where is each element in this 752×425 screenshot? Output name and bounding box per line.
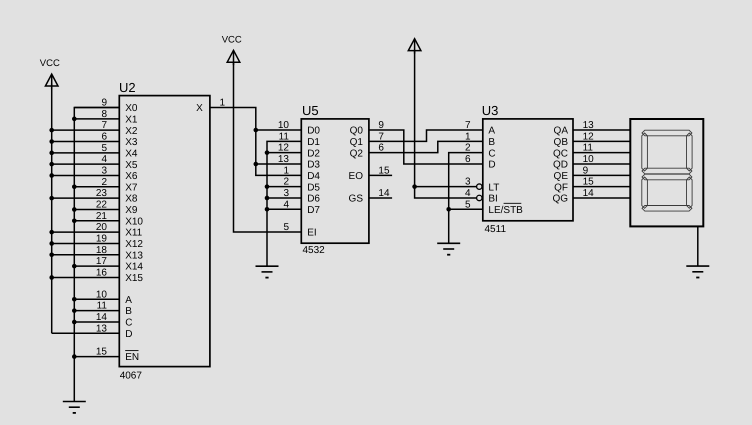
U2 pin 4 (X5) — [52, 154, 138, 171]
svg-text:X6: X6 — [125, 171, 138, 182]
svg-text:A: A — [125, 295, 132, 306]
svg-text:3: 3 — [283, 188, 289, 199]
junction VCC bus / X15 — [49, 275, 54, 280]
svg-text:3: 3 — [465, 177, 471, 188]
svg-text:X14: X14 — [125, 262, 143, 273]
junction C-gnd / LE-STB — [446, 207, 451, 212]
U2 pin 5 (X4) — [52, 143, 138, 160]
svg-text:Q0: Q0 — [350, 126, 364, 137]
svg-text:D0: D0 — [307, 126, 320, 137]
svg-text:X7: X7 — [125, 182, 138, 193]
svg-text:X4: X4 — [125, 148, 138, 159]
svg-text:C: C — [125, 318, 132, 329]
wire D6 stub — [267, 197, 301, 199]
svg-text:D6: D6 — [307, 194, 320, 205]
ground symbol (under U2) — [63, 402, 86, 413]
svg-text:13: 13 — [96, 323, 108, 334]
svg-text:11: 11 — [279, 131, 290, 142]
svg-text:X5: X5 — [125, 160, 138, 171]
svg-text:VCC: VCC — [40, 58, 60, 69]
U2 pin 9 (X0) — [74, 98, 138, 115]
wire D5 stub — [267, 186, 301, 188]
svg-text:D2: D2 — [307, 148, 320, 159]
display segment g (lower) — [642, 174, 692, 180]
U2 pin 14 (C) — [74, 312, 132, 329]
U3 pin 11 (QC) — [553, 143, 630, 160]
svg-text:22: 22 — [96, 199, 108, 210]
U5 pin 9 (Q0) — [350, 120, 385, 137]
wire net D1-D2-D5-D6-D7 to ground — [267, 141, 301, 266]
inversion bubble LT — [477, 184, 482, 189]
IC U3 4511 body — [483, 119, 573, 221]
svg-text:1: 1 — [283, 165, 289, 176]
wire Q2 to U3 B — [369, 141, 483, 152]
IC U5 4532 body — [301, 119, 369, 243]
IC U2 4067 body — [119, 96, 210, 367]
svg-text:X13: X13 — [125, 250, 143, 261]
7-segment display body — [630, 119, 703, 226]
svg-text:QF: QF — [554, 182, 568, 193]
junction ground bus / X14 — [72, 264, 77, 269]
junction ground bus / X1 — [72, 117, 77, 122]
svg-text:EI: EI — [307, 228, 316, 239]
svg-text:2: 2 — [465, 143, 471, 154]
svg-text:23: 23 — [96, 188, 108, 199]
wire ground bus (left, X0 corner down to ground) — [74, 108, 119, 402]
svg-text:X1: X1 — [125, 114, 138, 125]
U2 pin 22 (X9) — [74, 199, 138, 216]
svg-text:B: B — [125, 306, 132, 317]
svg-text:VCC: VCC — [222, 34, 242, 45]
U3 pin 1 (B) label — [465, 131, 495, 148]
junction D-bus / D6 — [265, 196, 270, 201]
svg-text:U5: U5 — [302, 103, 319, 118]
junction VCC bus / X8 — [49, 196, 54, 201]
U2 pin 19 (X12) — [52, 233, 144, 250]
U2 pin 7 (X2) — [52, 120, 138, 137]
svg-text:X9: X9 — [125, 205, 138, 216]
svg-text:QD: QD — [553, 160, 568, 171]
wire VCC to U3 BI — [415, 51, 477, 198]
wire D2 stub — [267, 152, 301, 154]
svg-text:4532: 4532 — [303, 245, 326, 256]
svg-text:X12: X12 — [125, 239, 143, 250]
junction ground bus / A — [72, 297, 77, 302]
power VCC symbol (left) — [40, 58, 60, 89]
svg-text:LE/STB: LE/STB — [488, 205, 523, 216]
U5 pin 13 (D3) label — [278, 154, 321, 171]
display segment c — [687, 177, 693, 208]
U3 pin 12 (QB) — [554, 131, 631, 148]
svg-text:14: 14 — [96, 312, 108, 323]
svg-text:X11: X11 — [125, 228, 142, 239]
U5 pin 1 (D4) label — [283, 165, 320, 182]
U2 pin 17 (X14) — [74, 256, 143, 273]
svg-text:4067: 4067 — [120, 370, 143, 381]
U2 pin 18 (X13) — [52, 245, 144, 262]
svg-text:D5: D5 — [307, 182, 320, 193]
junction X / D3 — [254, 162, 259, 167]
U3 pin 9 (QE) — [554, 165, 631, 182]
svg-text:10: 10 — [278, 120, 290, 131]
U5 pin 6 (Q2) — [350, 143, 385, 160]
U2 pin 11 (B) — [74, 301, 132, 318]
U2 pin 8 (X1) — [74, 109, 138, 126]
display segment d — [642, 206, 692, 212]
svg-text:U3: U3 — [482, 103, 499, 118]
svg-text:13: 13 — [278, 154, 290, 165]
svg-text:D7: D7 — [307, 205, 320, 216]
U5 pin 12 (D2) label — [278, 143, 321, 160]
svg-text:11: 11 — [97, 301, 108, 312]
junction X / D0 — [254, 128, 259, 133]
U5 pin 15 (EO) — [349, 165, 390, 182]
svg-text:17: 17 — [96, 256, 108, 267]
svg-text:4: 4 — [465, 188, 471, 199]
svg-text:4: 4 — [101, 154, 107, 165]
svg-text:QB: QB — [554, 137, 569, 148]
svg-text:X10: X10 — [125, 216, 143, 227]
svg-text:QE: QE — [554, 171, 569, 182]
svg-text:18: 18 — [96, 245, 108, 256]
svg-text:5: 5 — [465, 199, 471, 210]
U3 pin 4 (BI) label — [465, 188, 498, 205]
U2 pin 23 (X8) — [52, 188, 138, 205]
display segment b — [687, 133, 693, 171]
U3 pin 6 (D) label — [465, 154, 496, 171]
wire GS stub (unconnected) — [369, 197, 392, 199]
junction D-bus / D5 — [265, 184, 270, 189]
U2 pin 3 (X6) — [52, 165, 138, 182]
wire VCC bus (left, down to pin D) — [51, 84, 53, 334]
junction VCC bus / X4 — [49, 151, 54, 156]
junction VCC bus / X13 — [49, 252, 54, 257]
junction ground bus / X9 — [72, 207, 77, 212]
U3 pin 3 (LT) label — [465, 177, 499, 194]
svg-text:6: 6 — [465, 154, 471, 165]
svg-text:GS: GS — [349, 194, 364, 205]
svg-text:10: 10 — [96, 289, 108, 300]
svg-text:7: 7 — [101, 120, 107, 131]
U2 pin 21 (X10) — [74, 211, 143, 228]
U5 pin 2 (D5) label — [283, 177, 320, 194]
wire D0 stub — [256, 129, 301, 131]
svg-text:QG: QG — [552, 194, 568, 205]
U3 pin 2 (C) label — [465, 143, 496, 160]
U2 pin 10 (A) — [74, 289, 132, 306]
svg-text:D1: D1 — [307, 137, 320, 148]
svg-text:B: B — [488, 137, 495, 148]
junction ground bus / X10 — [72, 219, 77, 224]
junction ground bus / X7 — [72, 185, 77, 190]
svg-text:19: 19 — [96, 233, 108, 244]
svg-text:1: 1 — [465, 131, 471, 142]
svg-text:3: 3 — [101, 165, 107, 176]
display segment a — [642, 130, 692, 136]
svg-text:X0: X0 — [125, 103, 138, 114]
wire EO stub (unconnected) — [369, 174, 392, 176]
wire D7 stub — [267, 208, 301, 210]
svg-text:C: C — [488, 148, 495, 159]
display segment g (upper) — [642, 168, 692, 174]
svg-text:QC: QC — [553, 148, 568, 159]
junction VCC bus / X2 — [49, 128, 54, 133]
svg-text:16: 16 — [96, 267, 108, 278]
svg-text:12: 12 — [278, 143, 290, 154]
svg-text:X15: X15 — [125, 273, 143, 284]
wire LE/STB stub — [449, 208, 483, 210]
power VCC arrow (at U3) — [408, 39, 421, 54]
wire LT stub — [415, 186, 477, 188]
U5 pin 5 (EI) label — [283, 222, 316, 239]
power VCC symbol (middle) — [222, 34, 242, 65]
svg-text:X2: X2 — [125, 126, 138, 137]
svg-text:15: 15 — [96, 347, 108, 358]
svg-text:X: X — [196, 103, 203, 114]
svg-text:5: 5 — [283, 222, 289, 233]
wire Q0 to U3 D — [369, 130, 483, 164]
junction D-bus / D2 — [265, 150, 270, 155]
svg-text:QA: QA — [554, 126, 569, 137]
svg-text:X3: X3 — [125, 137, 138, 148]
U5 pin 11 (D1) label — [279, 131, 321, 148]
svg-text:Q2: Q2 — [350, 148, 364, 159]
ground symbol (under U5) — [256, 266, 279, 277]
svg-text:6: 6 — [101, 131, 107, 142]
svg-text:5: 5 — [101, 143, 107, 154]
junction ground bus / C — [72, 320, 77, 325]
junction VCC bus / X5 — [49, 162, 54, 167]
display segment e — [642, 177, 648, 208]
U5 pin 10 (D0) label — [278, 120, 321, 137]
svg-text:20: 20 — [96, 222, 108, 233]
svg-text:21: 21 — [96, 211, 108, 222]
U2 pin 2 (X7) — [74, 177, 138, 194]
junction VCC bus / X3 — [49, 139, 54, 144]
U2 pin 20 (X11) — [52, 222, 143, 239]
svg-text:D: D — [125, 329, 132, 340]
U2 pin 6 (X3) — [52, 131, 138, 148]
svg-text:2: 2 — [101, 177, 107, 188]
svg-text:A: A — [488, 126, 495, 137]
svg-text:U2: U2 — [119, 80, 136, 95]
wire D3 stub — [256, 163, 301, 165]
U2 pin 1 (X output) — [196, 98, 225, 115]
svg-text:D: D — [488, 160, 495, 171]
U3 pin 13 (QA) — [554, 120, 631, 137]
junction VCC bus / X11 — [49, 230, 54, 235]
ground symbol (under U3) — [437, 243, 460, 254]
ground symbol (under display) — [686, 266, 709, 277]
U2 pin 13 (D) — [52, 323, 133, 340]
junction VCC / LT — [412, 184, 417, 189]
U2 pin 16 (X15) — [52, 267, 144, 284]
junction VCC bus / X12 — [49, 241, 54, 246]
svg-text:LT: LT — [488, 182, 499, 193]
junction D-bus / D7 — [265, 207, 270, 212]
U3 pin 15 (QF) — [554, 177, 630, 194]
display segment f — [642, 133, 648, 171]
svg-text:4511: 4511 — [485, 224, 507, 235]
junction VCC bus / X6 — [49, 173, 54, 178]
U3 pin 7 (A) label — [465, 120, 495, 137]
svg-text:Q1: Q1 — [350, 137, 364, 148]
svg-text:BI: BI — [488, 194, 497, 205]
U3 pin 10 (QD) — [553, 154, 630, 171]
svg-text:2: 2 — [283, 177, 289, 188]
svg-text:EO: EO — [349, 171, 364, 182]
U5 pin 14 (GS) — [349, 188, 390, 205]
U5 pin 4 (D7) label — [283, 199, 320, 216]
wire VCC to U5 EI — [234, 62, 302, 232]
junction ground bus / B — [72, 308, 77, 313]
svg-text:X8: X8 — [125, 194, 138, 205]
wire net X: U2 pin1 to U5 D0/D3/D4 — [210, 108, 301, 176]
junction ground bus / EN — [72, 354, 77, 359]
wire display common to ground — [697, 226, 699, 266]
U5 pin 7 (Q1) — [350, 131, 385, 148]
wire U3 C to ground — [449, 153, 483, 244]
svg-text:D4: D4 — [307, 171, 320, 182]
svg-text:D3: D3 — [307, 160, 320, 171]
U3 pin 5 (LE/STB) label — [465, 199, 523, 216]
svg-text:EN: EN — [125, 352, 139, 363]
U3 pin 14 (QG) — [552, 188, 630, 205]
svg-text:7: 7 — [465, 120, 471, 131]
svg-text:8: 8 — [101, 109, 107, 120]
inversion bubble BI — [477, 195, 482, 200]
svg-text:4: 4 — [283, 199, 289, 210]
wire Q1 to U3 A — [369, 130, 483, 141]
U5 pin 3 (D6) label — [283, 188, 320, 205]
U2 pin 15 (EN, active low) — [74, 347, 139, 364]
